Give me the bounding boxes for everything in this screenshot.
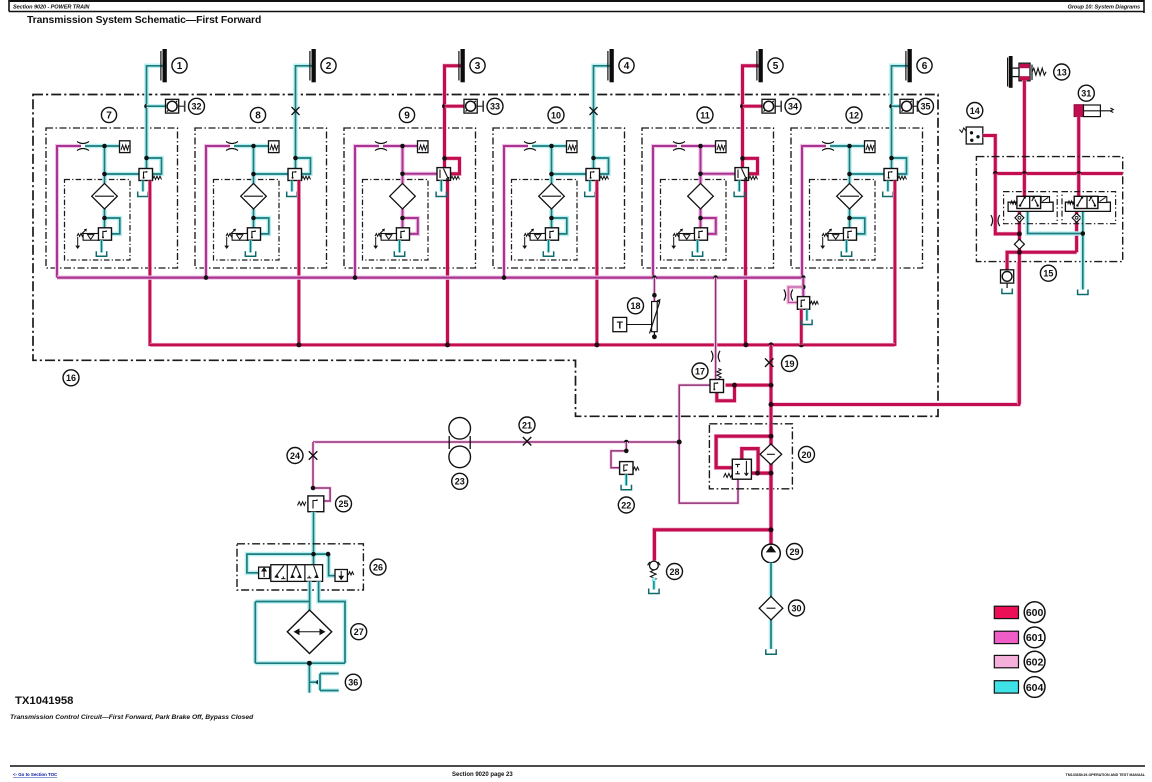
legend swatch 604 [994, 681, 1018, 693]
clutch module 10 [493, 49, 625, 346]
valve 22 spring [633, 467, 639, 470]
label 6 [917, 58, 932, 73]
label 27 [351, 624, 367, 640]
svg-text:28: 28 [669, 567, 679, 577]
svg-text:32: 32 [191, 102, 201, 112]
label 32 [189, 98, 205, 114]
manifold pressure bus (crimson) [995, 171, 1122, 175]
label 29 [787, 544, 803, 560]
header rule [9, 0, 1144, 13]
park brake cylinder feed (crimson) [1077, 117, 1081, 197]
label 10 [548, 107, 564, 123]
converter relief pilot loop (pink) [788, 287, 803, 303]
svg-text:9: 9 [404, 111, 410, 122]
svg-text:8: 8 [255, 111, 261, 122]
label 36 [345, 674, 361, 690]
label 18 [628, 298, 644, 314]
converter relief spring [810, 301, 818, 304]
label 21 [519, 417, 535, 433]
clutch module 9 [344, 49, 476, 346]
svg-text:600: 600 [1026, 607, 1044, 619]
pilot valve spring [348, 572, 354, 575]
svg-text:25: 25 [338, 499, 348, 509]
label 20 [799, 446, 815, 462]
label 4 [619, 58, 634, 73]
label 25 [336, 496, 352, 512]
manifold drain port [1001, 270, 1014, 288]
label 12 [846, 107, 862, 123]
svg-text:4: 4 [624, 61, 630, 72]
legend swatch 601 [994, 631, 1018, 643]
legend swatch 600 [994, 606, 1018, 618]
plug 24 [309, 451, 318, 460]
test port 32 [144, 99, 185, 113]
plug 21 [523, 437, 532, 446]
regulator box 20 [709, 424, 792, 489]
svg-text:Transmission Control Circuit—F: Transmission Control Circuit—First Forwa… [10, 714, 254, 721]
svg-text:602: 602 [1026, 656, 1044, 668]
legend label 604 [1024, 677, 1045, 698]
supply bus junctions [204, 275, 209, 280]
svg-text:30: 30 [791, 603, 801, 613]
svg-text:34: 34 [788, 102, 798, 112]
regulator 20 spring [724, 474, 733, 478]
svg-text:Group 10: System Diagrams: Group 10: System Diagrams [1068, 5, 1140, 11]
legend label 601 [1024, 627, 1045, 648]
check valve below solenoid A [1015, 213, 1024, 222]
svg-text:15: 15 [1043, 269, 1053, 279]
suction tank [766, 649, 776, 654]
label 31 [1078, 85, 1094, 101]
svg-text:27: 27 [354, 627, 364, 637]
park brake port 36 [320, 674, 339, 691]
main pressure trunk (crimson) [771, 262, 1019, 424]
label 22 [618, 497, 634, 513]
svg-text:2: 2 [326, 61, 332, 72]
converter relief valve [797, 297, 809, 310]
manifold left branch (crimson) [995, 174, 1078, 405]
label 34 [785, 98, 801, 114]
clutch module 8 [195, 49, 327, 346]
svg-text:13: 13 [1057, 67, 1067, 77]
svg-text:3: 3 [475, 61, 481, 72]
test port 33 [442, 99, 483, 113]
svg-text:19: 19 [784, 359, 794, 369]
filter 27 loop lines (teal) [255, 581, 345, 692]
label 16 [63, 370, 79, 386]
pressure bus junctions [296, 342, 301, 347]
svg-text:29: 29 [789, 547, 799, 557]
svg-text:TM1336Sh19-OPERATION AND TEST: TM1336Sh19-OPERATION AND TEST MANUAL [1066, 773, 1146, 777]
valve 22 drain (cyan) [625, 474, 628, 485]
svg-text:604: 604 [1026, 682, 1044, 694]
test port 35 [889, 99, 917, 113]
svg-text:1: 1 [177, 61, 183, 72]
temperature sensor box T [613, 317, 652, 331]
svg-text:Section 9020 page 23: Section 9020 page 23 [452, 772, 513, 778]
valve 17 pilot line left [679, 385, 738, 503]
accumulator line (crimson) [983, 136, 996, 174]
converter relief valve feed line [801, 278, 805, 297]
label 14 [967, 103, 983, 119]
temperature valve 18 [650, 299, 661, 339]
solenoid valve A sub-box [1004, 192, 1058, 224]
park brake clutch feed (crimson) [1022, 80, 1026, 196]
svg-text:12: 12 [849, 110, 859, 120]
oil cooler 23 [449, 418, 471, 468]
box 26 teal lines [247, 554, 335, 576]
converter relief orifice [784, 290, 793, 301]
valve 25 [308, 496, 324, 512]
converter relief drain to tank (cyan) [805, 309, 808, 320]
relief valve 28 [648, 561, 661, 589]
svg-text:5: 5 [773, 61, 779, 72]
svg-text:26: 26 [373, 563, 383, 573]
svg-text:<- Go to Section TOC: <- Go to Section TOC [13, 772, 58, 777]
label 7 [101, 107, 116, 122]
label 13 [1054, 64, 1070, 80]
label 23 [452, 473, 468, 489]
legend label 602 [1024, 651, 1045, 672]
svg-text:33: 33 [490, 102, 500, 112]
clutch module 7 [46, 49, 178, 346]
svg-text:6: 6 [922, 61, 928, 72]
label 3 [470, 58, 485, 73]
solenoid manifold box 15 [976, 157, 1122, 262]
park brake clutch 13 [1008, 56, 1047, 88]
label 33 [487, 98, 503, 114]
orifice above valve 17 [711, 351, 720, 362]
svg-text:20: 20 [801, 450, 811, 460]
clutch module 11 [642, 49, 774, 346]
test port 34 [740, 99, 781, 113]
label 17 [692, 363, 708, 379]
lube relief valve 22 [611, 442, 626, 468]
solenoid valve B [1065, 196, 1110, 211]
svg-text:11: 11 [700, 110, 710, 120]
park brake valve box 26 [237, 544, 363, 590]
svg-text:31: 31 [1081, 89, 1091, 99]
regulator trunk through box 20 (crimson) [654, 424, 771, 561]
svg-text:22: 22 [621, 500, 631, 510]
valve 17 [710, 380, 724, 393]
regulator valve 20 [732, 459, 751, 479]
plug 19 [765, 358, 774, 367]
label 11 [697, 107, 713, 123]
label 9 [399, 107, 414, 122]
clutch module 12 [791, 49, 923, 346]
dashed enclosure box 16 [33, 95, 938, 417]
label 35 [918, 98, 934, 114]
svg-text:35: 35 [920, 102, 930, 112]
clutch pressure bus (crimson) [150, 343, 895, 347]
footer rule [10, 765, 1145, 767]
pump 29 [762, 544, 781, 563]
lockup valve 17 pilot line from bus [714, 278, 717, 380]
label 5 [768, 58, 783, 73]
svg-text:7: 7 [106, 111, 112, 122]
park brake pilot valve [335, 570, 347, 582]
check valve below solenoid B [1072, 213, 1081, 222]
manifold teal lines [1028, 211, 1083, 290]
suction line pump to strainer (teal) [769, 563, 774, 649]
converter relief output (crimson) [799, 309, 803, 345]
valve 25 spring [298, 502, 306, 506]
lube branch to valve 25 (magenta) [313, 442, 330, 501]
manifold orifice [991, 215, 1000, 226]
svg-text:14: 14 [970, 106, 980, 116]
label 19 [782, 356, 798, 372]
valve 17 output to trunk (crimson) [717, 385, 771, 401]
label 1 [172, 58, 187, 73]
cooler line (magenta) [313, 440, 679, 443]
svg-text:Transmission System Schematic—: Transmission System Schematic—First Forw… [27, 15, 261, 26]
label 8 [250, 107, 265, 122]
legend label 600 [1024, 602, 1045, 623]
svg-text:16: 16 [66, 373, 76, 383]
svg-text:TX1041958: TX1041958 [15, 695, 73, 707]
svg-text:17: 17 [695, 366, 705, 376]
label 24 [287, 448, 303, 464]
legend swatch 602 [994, 655, 1018, 667]
label 15 [1040, 265, 1056, 281]
svg-text:21: 21 [522, 420, 532, 430]
label 2 [321, 58, 336, 73]
svg-text:36: 36 [348, 678, 358, 688]
plugged port module 8 [292, 107, 300, 115]
label 26 [370, 559, 386, 575]
svg-text:Section 9020 - POWER TRAIN: Section 9020 - POWER TRAIN [13, 5, 90, 11]
svg-text:T: T [617, 321, 623, 332]
park brake cylinder 31 [1074, 105, 1113, 117]
manifold check valve [1014, 239, 1024, 249]
label 28 [667, 564, 683, 580]
svg-text:24: 24 [290, 451, 300, 461]
svg-text:18: 18 [630, 301, 640, 311]
park brake spool valve [259, 565, 323, 582]
valve 17 spring [717, 369, 721, 379]
park brake filter 27 [287, 610, 331, 654]
label 30 [789, 600, 805, 616]
solenoid valve B sub-box [1062, 192, 1116, 224]
svg-text:10: 10 [551, 110, 561, 120]
svg-text:601: 601 [1026, 632, 1044, 644]
plugged port module 10 [590, 107, 598, 115]
accumulator 14 [959, 127, 982, 144]
strainer 30 [759, 596, 783, 620]
solenoid valve A [1008, 196, 1053, 211]
check valve in box 20 [760, 444, 782, 465]
temperature valve 18 feed [653, 278, 656, 302]
regulated supply bus (magenta) [57, 275, 803, 279]
valve 25 outlet (teal) [311, 512, 316, 554]
svg-text:23: 23 [455, 477, 465, 487]
